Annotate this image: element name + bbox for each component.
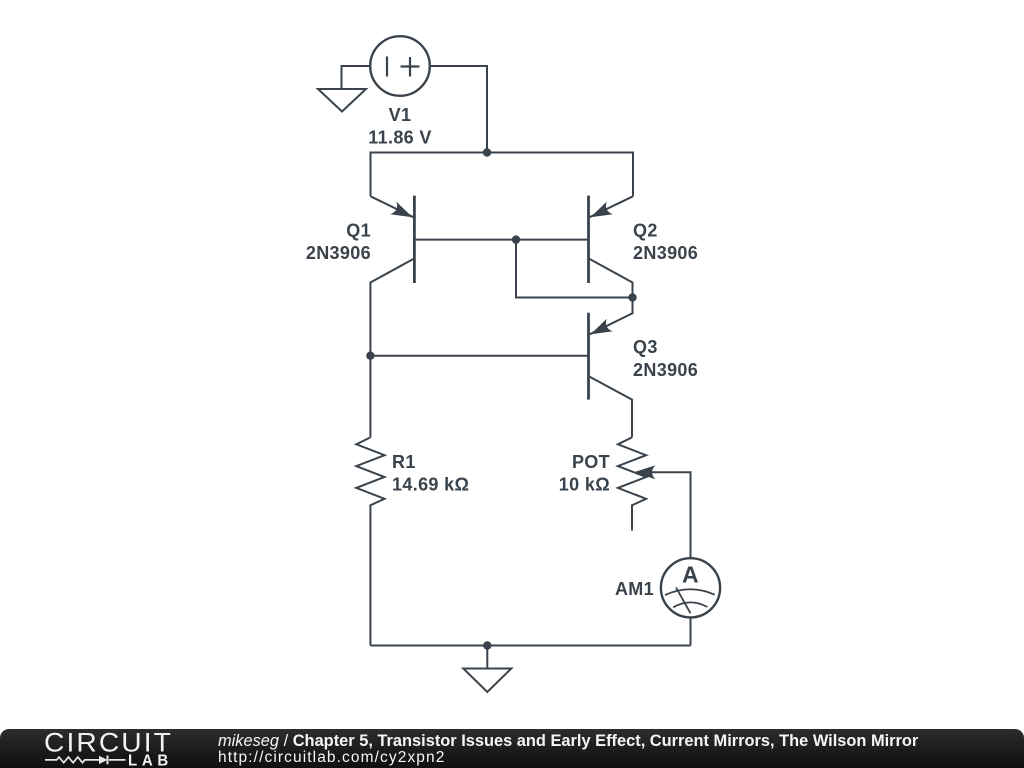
- svg-text:LAB: LAB: [128, 753, 173, 768]
